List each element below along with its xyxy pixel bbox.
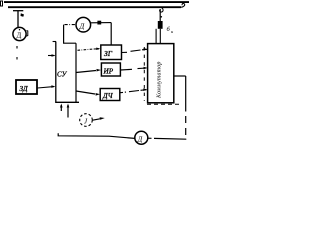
wire: ZG output dashes to commutator [122,51,127,53]
svg-text:J: J [84,118,88,126]
node: small blob terminal [21,13,25,17]
wire: dash-dot link from circle to left riser [65,24,76,26]
wire: circle to oscillator riser with junction [91,22,112,24]
block DCh: frequency divider [100,89,120,101]
wire: bottom motor line [58,133,135,138]
svg-text:б: б [167,26,171,33]
wire: dashed lead below tachogenerator [16,46,18,49]
svg-text:ЗД: ЗД [20,85,29,93]
svg-text:Д: Д [17,32,22,40]
wire: ZD output arrow into SU [38,87,55,88]
wire: commutator output to right rail [174,75,186,77]
node: connector crossbar [13,10,23,12]
block ZD: setpoint box [16,80,37,94]
wire: arrows into SU bottom [60,105,62,111]
wire: left riser down to control box top [64,25,76,44]
svg-text:н: н [171,29,174,34]
wire: cabinet dashed boundary bottom [147,103,181,105]
node: page-edge glyph fragment [1,1,3,6]
wire: riser from bus with loop [160,7,163,12]
wire: right rail dashed down to motor line [185,116,187,123]
wire: motor to right rail [148,137,152,139]
svg-text:Д: Д [79,22,86,31]
wire: SU output to IR box [76,71,96,73]
block IR: pulse distributor [101,63,120,76]
wire: cabinet dashed boundary left [143,47,145,101]
block SU: control-system box [53,41,56,43]
machine M1: motor circle [135,131,148,144]
wire: input arrow into SU left (upper) [48,55,55,57]
wire: IR output dashes to commutator [121,68,133,71]
wire: top bus line 2 (сеть) [8,6,181,8]
node: switch blob on riser [158,21,163,29]
machine G1: tachogenerator circle [13,27,26,40]
wire: DCh output dash-dot to commutator [120,91,123,93]
wire: drop from bus to tachogenerator [17,11,19,28]
svg-text:ЗГ: ЗГ [104,49,113,58]
load J: dashed circle [80,114,93,127]
block U1: commutator (big box) [148,44,174,103]
svg-text:Коммутатор: Коммутатор [157,61,163,99]
wire: arrow from load circle [93,119,100,120]
svg-text:СУ: СУ [57,71,68,79]
wire: dash-dot from SU to ZG input [78,49,95,50]
node: filled square junction [97,21,101,25]
wire: SU output to DCh box [76,91,95,94]
svg-text:ИР: ИР [103,68,114,76]
wire: top bus line 1 [4,1,189,3]
node: bracket mark beside circle [26,31,28,37]
machine G2: pilot generator circle (top middle) [76,17,91,32]
block ZG: master oscillator [101,45,122,60]
wire: double riser into commutator [155,29,157,44]
wire: riser down into ZG box [110,23,112,45]
wire: curled right end of bus line 2 [181,3,185,7]
svg-text:ДЧ: ДЧ [102,92,114,100]
svg-text:Д: Д [137,135,143,143]
